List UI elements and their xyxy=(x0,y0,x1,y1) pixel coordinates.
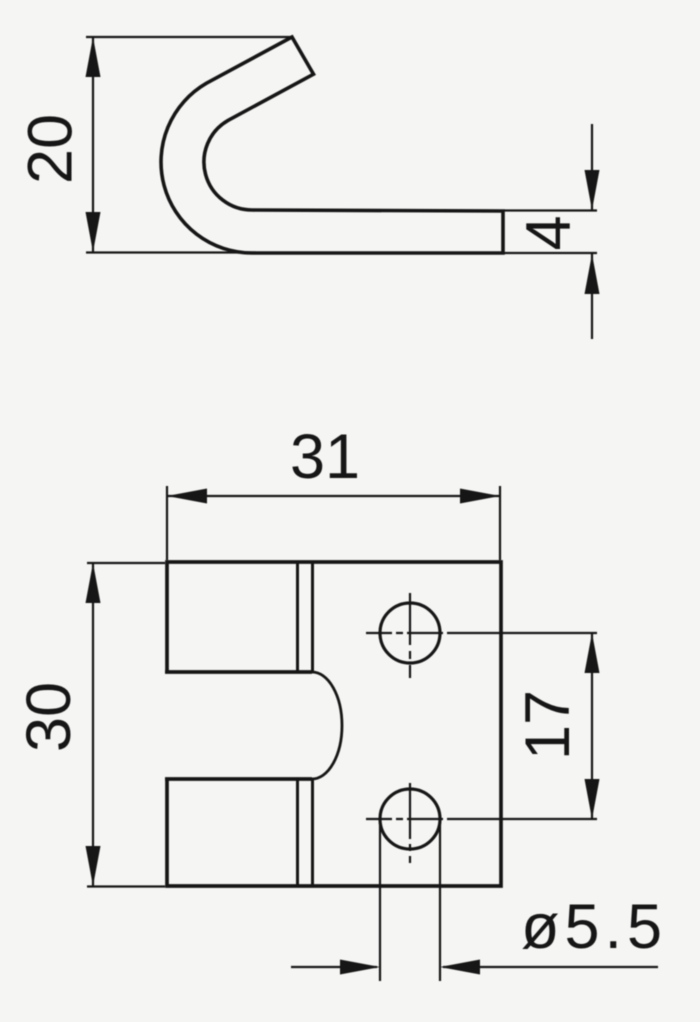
dim 20 extension line top xyxy=(86,36,292,38)
bend line right xyxy=(311,562,314,886)
top hole centerlines xyxy=(366,593,597,678)
bottom hole xyxy=(380,789,440,849)
dim 30 extension lines xyxy=(87,563,165,887)
hole tangent extension lines xyxy=(380,821,440,981)
plate front view outline xyxy=(167,562,501,886)
dim 4 extension line bottom xyxy=(504,252,597,254)
dim 20 dimension line with arrows xyxy=(86,37,101,252)
dim 31 dimension line with arrows xyxy=(167,489,500,504)
dim 31 extension lines xyxy=(167,486,500,560)
svg-text:17: 17 xyxy=(513,690,583,760)
svg-text:20: 20 xyxy=(16,114,86,184)
dim 4 label xyxy=(514,215,584,250)
dim 17 dimension line with arrows xyxy=(585,633,600,819)
dim 17 label xyxy=(513,690,583,760)
top hole xyxy=(380,603,440,663)
svg-text:ø5.5: ø5.5 xyxy=(521,892,667,962)
dia 5.5 label xyxy=(521,892,667,962)
bottom hole centerlines xyxy=(366,783,597,863)
dia 5.5 leader arrows xyxy=(291,960,658,975)
bend line left xyxy=(296,562,299,886)
dim 4 extension line top xyxy=(504,209,597,211)
dim 20 extension line bottom xyxy=(86,251,256,253)
svg-text:30: 30 xyxy=(14,682,84,752)
svg-text:4: 4 xyxy=(514,215,584,250)
dim 4 dimension lines with arrows xyxy=(585,124,600,339)
svg-text:31: 31 xyxy=(290,422,360,492)
dim 30 label xyxy=(14,682,84,752)
dim 31 label xyxy=(290,422,360,492)
hook side view outline xyxy=(161,37,503,253)
slot end arc xyxy=(312,672,342,779)
dim 30 dimension line with arrows xyxy=(86,563,101,886)
slot bottom edge xyxy=(165,777,312,781)
dim 20 label xyxy=(16,114,86,184)
slot top edge xyxy=(165,670,312,674)
